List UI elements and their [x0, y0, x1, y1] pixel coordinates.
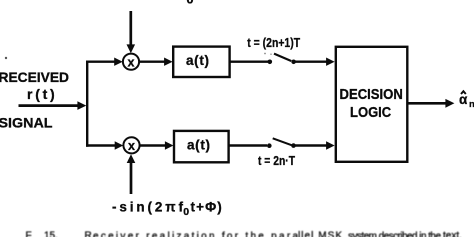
label: output alpha-hat sub n — [459, 91, 474, 110]
svg-text:F: F — [26, 230, 32, 237]
wire: top sampler to decision logic — [294, 58, 335, 66]
svg-text:α: α — [459, 92, 468, 107]
multiplier M2 (bottom mixer) — [123, 137, 139, 153]
svg-text:a(t): a(t) — [187, 138, 210, 153]
node: stray scan speck — [5, 57, 7, 59]
svg-text:t = (2n+1)T: t = (2n+1)T — [247, 36, 300, 50]
wire: branch to bottom multiplier — [86, 141, 123, 149]
block U1: decision logic — [336, 47, 408, 162]
switch S1: top sampler — [268, 54, 296, 65]
wire: bottom multiplier to filter a(t) — [140, 141, 174, 149]
wire: oscillator input arrow into bottom multiplier — [127, 154, 136, 194]
wire: decision logic output arrow — [407, 99, 454, 108]
svg-text:15.: 15. — [44, 230, 58, 237]
svg-text:R: R — [85, 230, 92, 237]
svg-text:a(t): a(t) — [186, 53, 209, 68]
wire: top filter to sampler — [230, 61, 268, 63]
filter A2: bottom matched filter a(t) — [174, 131, 229, 162]
svg-text:n: n — [469, 99, 474, 110]
svg-text:t = 2n·T: t = 2n·T — [258, 154, 295, 168]
wire: branch to top multiplier — [86, 58, 123, 66]
svg-text:r(t): r(t) — [27, 86, 55, 102]
svg-text:DECISION: DECISION — [340, 87, 403, 103]
svg-text:RECEIVED: RECEIVED — [0, 69, 69, 85]
wire: top multiplier to filter a(t) — [139, 58, 172, 66]
svg-text:x: x — [128, 139, 135, 153]
wire: input arrow r(t) into branch node — [19, 101, 87, 110]
svg-text:LOGIC: LOGIC — [350, 105, 392, 121]
svg-text:0: 0 — [186, 0, 193, 6]
wire: vertical branch line — [86, 61, 88, 147]
svg-text:eceiver realization for the pa: eceiver realization for the para — [93, 231, 298, 237]
multiplier M1 (top mixer) — [123, 54, 139, 70]
svg-text:SIGNAL: SIGNAL — [0, 115, 53, 131]
svg-text:text.: text. — [443, 230, 462, 237]
svg-text:x: x — [128, 55, 135, 69]
switch S2: bottom sampler — [267, 138, 296, 148]
node: bottom of cut-off carrier label cos(2pi f0 t + phi) — [186, 0, 193, 6]
svg-text:system described in the: system described in the — [348, 231, 441, 237]
wire: oscillator input arrow into top multiplier — [127, 11, 136, 53]
wire: bottom filter to sampler — [229, 144, 267, 146]
svg-text:t+Φ): t+Φ) — [191, 200, 222, 215]
label: -sin(2 pi f0 t + phi) local oscillator — [112, 200, 222, 219]
caption: figure caption (cut off at bottom edge) — [26, 230, 462, 240]
svg-text:llel MSK: llel MSK — [298, 230, 342, 237]
filter A1: top matched filter a(t) — [173, 47, 229, 77]
wire: bottom sampler to decision logic — [294, 141, 335, 149]
svg-text:-sin(2πf: -sin(2πf — [112, 200, 184, 215]
node: scan specks under sampling label — [264, 53, 266, 55]
svg-text:0: 0 — [183, 206, 189, 218]
